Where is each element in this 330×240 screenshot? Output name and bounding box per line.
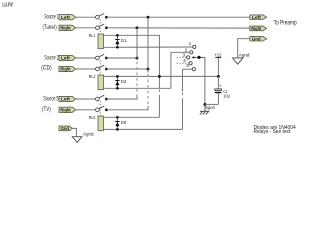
relay contact RL1b [96, 24, 108, 30]
svg-text:Right: Right [60, 25, 71, 30]
wire J1-Right to contact [76, 27, 96, 29]
svg-text:Left: Left [252, 15, 261, 20]
svg-text:Gnd: Gnd [252, 36, 261, 41]
wire Left output bus [106, 16, 249, 18]
svg-text:To Preamp: To Preamp [274, 20, 298, 26]
svg-text:Agnd: Agnd [239, 53, 250, 59]
svg-text:(CD): (CD) [41, 66, 51, 72]
rotary switch S1 pos5 [186, 63, 195, 71]
wire RL5 coil bottom [103, 128, 182, 130]
svg-text:D1: D1 [121, 38, 127, 44]
connector J1 Right (input) [59, 25, 76, 30]
node +12 rail junction [217, 75, 220, 78]
svg-text:Gnd: Gnd [61, 126, 70, 131]
svg-text:RL2: RL2 [89, 74, 96, 80]
svg-text:1: 1 [189, 41, 192, 46]
svg-text:D2: D2 [121, 79, 127, 85]
connector J2 Left (input) [59, 55, 76, 60]
switch S1 wiper arm [192, 56, 205, 59]
wire RL1 coil bottom to switch pos1 [103, 46, 192, 48]
node rail x159.4 [158, 75, 161, 78]
wire riser x137 solid upper [136, 28, 138, 60]
wire RL5 coil top [103, 116, 159, 118]
linkage RL1 (dotted) [99, 20, 101, 34]
relay coil RL5 [89, 115, 104, 131]
wire switch pos2 lead [171, 51, 190, 53]
diode D2 [115, 75, 126, 90]
wire riser x137 dashed (omitted relays) [136, 62, 138, 96]
wire switch pos5 lead [183, 68, 193, 70]
relay contact RL2b [96, 65, 108, 71]
diode D5 [115, 116, 126, 131]
wire switch pos5 drop x182.5 lower [182, 100, 184, 129]
svg-text:Relays - See text: Relays - See text [254, 129, 291, 135]
node Right bus / riser [136, 26, 139, 29]
connector J5 Left (input) [59, 96, 76, 101]
connector Gnd (input) [59, 126, 72, 131]
svg-text:Left: Left [61, 56, 70, 61]
power +12 [214, 53, 222, 77]
svg-text:5: 5 [186, 63, 189, 68]
connector Left (output) [250, 15, 267, 20]
svg-text:Agnd: Agnd [83, 131, 94, 137]
wire RL2 coil bottom [103, 87, 170, 89]
capacitor C1 [205, 84, 230, 105]
wire coil-top bus x159.4 upper [158, 35, 160, 88]
relay coil RL1 [89, 33, 104, 49]
svg-text:Source 2: Source 2 [44, 56, 59, 62]
svg-text:RL5: RL5 [89, 115, 96, 121]
wire coil-top bus x159.4 dashed [158, 89, 160, 96]
rotary switch S1 pos3 [183, 52, 190, 59]
diode D1 [115, 34, 126, 49]
wire J1-Left to contact [76, 16, 96, 18]
wire coil-top bus x159.4 lower [158, 97, 160, 118]
relay contact RL1a [96, 13, 108, 19]
ground Agnd (bottom left) [72, 131, 94, 142]
node Left bus / riser [147, 16, 150, 19]
linkage RL5 (dotted) [99, 101, 101, 115]
svg-text:Right: Right [60, 67, 71, 72]
wire S5-Right row [106, 106, 148, 110]
svg-text:(TV): (TV) [42, 107, 51, 113]
svg-text:+: + [219, 84, 222, 89]
svg-text:2: 2 [185, 47, 188, 52]
wire J5-Right to contact [76, 109, 96, 111]
relay contact RL2a [96, 54, 108, 60]
wire switch pos4 stub (dotted) [177, 62, 189, 64]
wire switch pos3 stub (dotted) [177, 56, 187, 58]
connector J1 Left (input) [59, 15, 76, 20]
wire Right output bus [106, 27, 249, 29]
svg-text:10u: 10u [223, 93, 230, 99]
svg-text:Left: Left [61, 97, 70, 102]
ground Sgnd [200, 105, 215, 115]
node S2-Left riser [136, 57, 139, 60]
wire RL1 coil top [103, 34, 159, 37]
svg-text:Right: Right [251, 26, 262, 31]
wire Gnd input to Agnd [72, 128, 76, 136]
svg-text:+12: +12 [214, 53, 222, 58]
wire S5-Left row [106, 96, 137, 100]
svg-text:RL1: RL1 [89, 33, 96, 39]
wire J2-Right to contact [76, 68, 96, 70]
relay contact RL5a [96, 95, 108, 101]
rotary switch S1 pos4 [183, 58, 192, 65]
svg-text:Source 1: Source 1 [44, 15, 59, 21]
relay coil RL2 [89, 74, 104, 90]
svg-text:Right: Right [60, 107, 71, 112]
svg-text:LU.F#!: LU.F#! [2, 3, 13, 9]
wire riser x148 dashed (omitted relays) [147, 74, 149, 106]
linkage RL2 (dotted) [99, 60, 101, 74]
connector J2 Right (input) [59, 66, 76, 71]
node wiper/C1 junction [203, 103, 206, 106]
svg-text:D5: D5 [121, 120, 127, 126]
svg-text:Left: Left [61, 15, 70, 20]
wire RL2 coil top (+12 rail) [103, 75, 218, 77]
svg-text:(Tuner): (Tuner) [43, 25, 57, 31]
wire S2-Left row [106, 57, 137, 59]
connector J5 Right (input) [59, 107, 76, 112]
wire switch pos2 drop x170.9 [170, 52, 172, 88]
wire wiper to ground drop [204, 57, 206, 111]
ground Agnd (top right) [233, 53, 250, 65]
wire switch pos5 drop x182.5 upper [182, 69, 184, 91]
rotary switch S1 pos2 [185, 47, 193, 54]
wire J5-Left to contact [76, 98, 96, 100]
svg-text:Source 5: Source 5 [43, 96, 59, 102]
svg-text:3: 3 [183, 52, 186, 57]
connector Gnd (output) [250, 36, 267, 41]
wire riser x148 solid upper [147, 17, 149, 72]
connector Right (output) [250, 26, 267, 31]
svg-text:Sgnd: Sgnd [205, 105, 215, 111]
wire Gnd connector to Agnd [238, 39, 250, 58]
wire switch pos5 drop x182.5 dashed [182, 93, 184, 101]
wire J2-Left to contact [76, 57, 96, 59]
wire S2-Right row [106, 68, 148, 70]
relay contact RL5b [96, 106, 108, 112]
wire +12 to C1 [217, 76, 219, 89]
rotary switch S1 pos1 [189, 41, 196, 48]
node S2-Right riser [147, 68, 150, 71]
